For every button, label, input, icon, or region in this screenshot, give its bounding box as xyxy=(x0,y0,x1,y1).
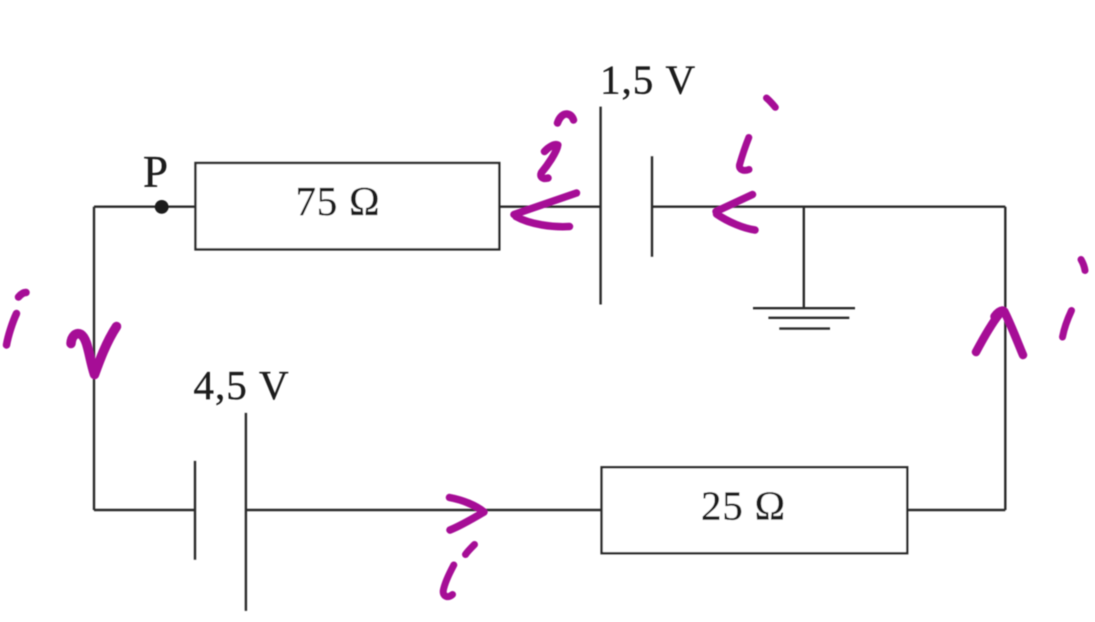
annotation: letter i with accent at right edge xyxy=(1063,260,1086,338)
ground bar 1 xyxy=(753,307,855,309)
svg-text:4,5 V: 4,5 V xyxy=(194,362,290,408)
annotation: letter i at left edge xyxy=(7,292,27,345)
svg-text:P: P xyxy=(143,147,168,197)
wire: R1 right terminal to battery V1 xyxy=(499,205,600,207)
svg-text:25 Ω: 25 Ω xyxy=(701,483,786,529)
battery V2 4,5 V long plate (+) xyxy=(245,413,247,611)
wire: bottom-right horizontal to R2 xyxy=(907,509,1005,511)
current arrow: left-pointing < before ground junction xyxy=(716,195,755,231)
svg-text:75 Ω: 75 Ω xyxy=(296,178,381,224)
resistor R1 75 ohm box xyxy=(196,163,500,249)
wire: top-left horizontal through node P to R1 xyxy=(94,205,196,207)
annotation: letter i with acute accent, below bottom wire xyxy=(443,545,474,597)
current arrow: upward ^ on right wire xyxy=(976,311,1023,355)
annotation: letter i with grave accent, right of battery V1 xyxy=(739,98,775,170)
wire: battery V2 to bottom-left corner xyxy=(94,509,195,511)
current arrow: downward v on left wire xyxy=(71,327,117,375)
annotation: letter i with hat, above-left of battery V1 xyxy=(541,114,574,178)
wire: R2 left terminal to battery V2 xyxy=(246,509,602,511)
current arrow: left-pointing < between R1 and battery V1 xyxy=(514,193,577,227)
svg-text:1,5 V: 1,5 V xyxy=(600,57,696,103)
node P junction dot xyxy=(155,200,169,214)
resistor R2 25 ohm box xyxy=(602,467,908,553)
wire: right vertical xyxy=(1004,207,1006,510)
wire: left vertical from node P down to bottom rail xyxy=(93,207,95,510)
wire: battery V1 to top-right corner xyxy=(652,205,1005,207)
ground bar 3 xyxy=(779,327,830,329)
battery V2 4,5 V short plate (-) xyxy=(194,461,196,560)
battery V1 1,5 V short plate (-) xyxy=(651,156,653,256)
current arrow: right-pointing > on bottom wire xyxy=(450,498,485,531)
battery V1 1,5 V long plate (+) xyxy=(599,107,601,305)
ground bar 2 xyxy=(768,317,849,319)
ground stem xyxy=(803,207,805,309)
